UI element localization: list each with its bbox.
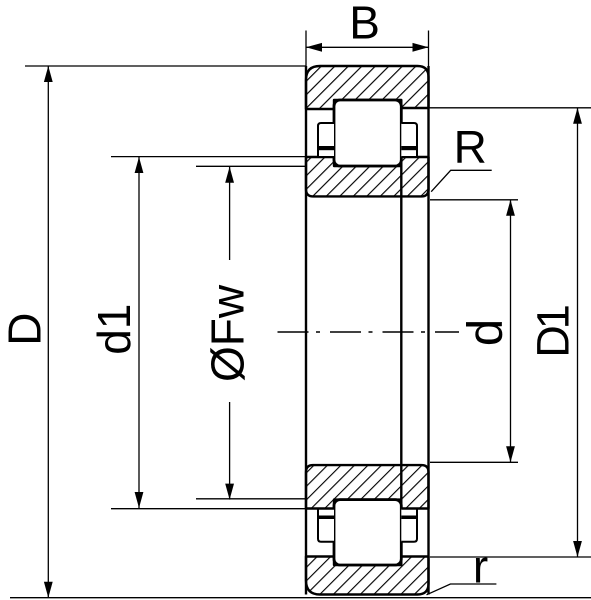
- cage rib top-right: [401, 123, 417, 157]
- right face line: [427, 66, 429, 595]
- inner ring top section: [306, 157, 429, 196]
- B extension right: [428, 31, 430, 67]
- D1 extension bottom: [430, 556, 591, 558]
- r leader: [427, 584, 497, 595]
- B arrow left: [306, 43, 322, 52]
- OFw extension bottom: [196, 498, 306, 500]
- B extension left: [305, 31, 307, 67]
- svg-text:D: D: [0, 313, 51, 346]
- d1 dimension line: [138, 157, 140, 508]
- svg-text:d: d: [459, 319, 513, 346]
- D1 arrow bottom: [573, 541, 582, 557]
- d arrow bottom: [506, 446, 515, 462]
- B dimension line: [306, 46, 429, 48]
- OFw dimension line upper: [229, 167, 231, 260]
- OFw dimension line lower: [229, 402, 231, 500]
- D arrow top: [44, 66, 53, 82]
- OFw extension top: [196, 165, 306, 167]
- outer ring bottom section: [306, 557, 429, 595]
- OFw arrow bottom: [225, 484, 234, 500]
- d1 arrow top: [135, 157, 144, 173]
- collar joint line: [400, 157, 402, 509]
- D1 extension top: [429, 107, 591, 109]
- cage band bottom-left: [318, 516, 334, 520]
- cage band top-left: [318, 146, 334, 150]
- D extension top: [25, 65, 306, 67]
- svg-text:D1: D1: [528, 306, 579, 357]
- cage band bottom-right: [401, 516, 417, 520]
- d1 extension top: [111, 156, 306, 158]
- inner ring bottom section: [306, 465, 429, 508]
- cage rib bottom-left: [318, 509, 334, 542]
- svg-text:d1: d1: [88, 304, 140, 355]
- d1 extension bottom: [111, 508, 306, 510]
- left face line: [305, 66, 307, 595]
- svg-text:r: r: [473, 541, 488, 593]
- B arrow right: [413, 43, 429, 52]
- d extension bottom: [430, 461, 518, 463]
- d arrow top: [506, 200, 515, 216]
- cage band top-right: [401, 146, 417, 150]
- R leader: [431, 170, 492, 191]
- D extension bottom: [10, 597, 591, 599]
- OFw arrow top: [225, 167, 234, 183]
- svg-text:B: B: [349, 0, 380, 49]
- cage rib bottom-right: [401, 509, 417, 542]
- D arrow bottom: [44, 582, 53, 598]
- d dimension line: [510, 200, 512, 463]
- cage rib top-left: [318, 123, 334, 157]
- svg-text:R: R: [454, 121, 487, 173]
- D dimension line: [47, 66, 49, 598]
- svg-text:ØFw: ØFw: [202, 284, 254, 382]
- roller top: [334, 100, 401, 166]
- d extension top: [430, 199, 518, 201]
- outer ring top section: [306, 66, 429, 109]
- D1 arrow top: [573, 108, 582, 124]
- d1 arrow bottom: [135, 492, 144, 508]
- centerline: [278, 331, 460, 333]
- roller bottom: [334, 500, 401, 565]
- D1 dimension line: [577, 108, 579, 557]
